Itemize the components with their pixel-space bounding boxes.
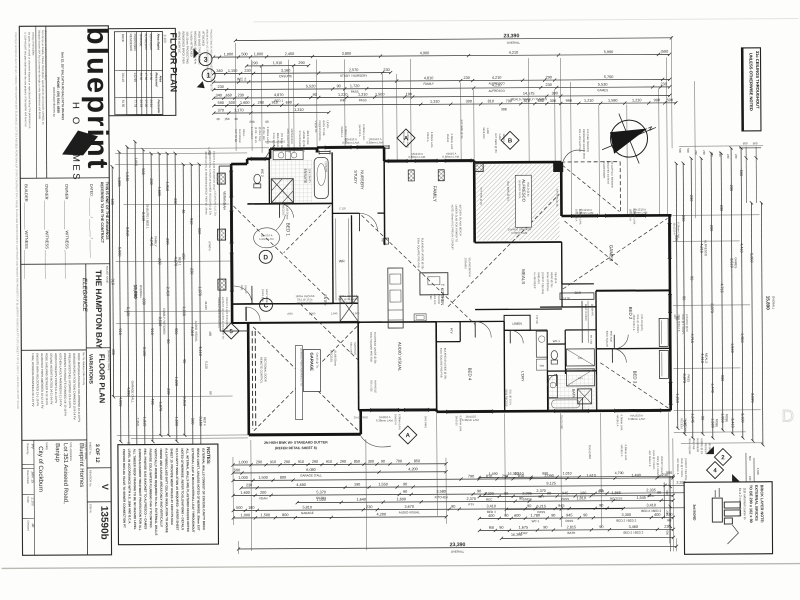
svg-text:1,510: 1,510 xyxy=(515,472,524,476)
svg-text:20x0610 STACKER: 20x0610 STACKER xyxy=(508,227,532,231)
wall wc1 xyxy=(547,330,565,374)
svg-text:3,100: 3,100 xyxy=(740,413,744,423)
svg-text:ISLAND BENCH: ISLAND BENCH xyxy=(468,258,472,277)
svg-text:230: 230 xyxy=(710,152,714,157)
bottom dim line 7 xyxy=(232,503,703,515)
left dim line 2 xyxy=(125,145,135,468)
svg-text:6.36mm LAM.: 6.36mm LAM. xyxy=(462,418,480,422)
svg-text:230: 230 xyxy=(149,178,153,184)
svg-text:4,715: 4,715 xyxy=(720,283,724,293)
left dim line 1 xyxy=(117,150,123,443)
room label KITCHEN xyxy=(440,288,445,306)
svg-text:2,350: 2,350 xyxy=(136,418,140,426)
svg-text:90: 90 xyxy=(182,359,186,363)
left dim line 0 xyxy=(110,165,115,398)
built-in desk xyxy=(582,301,594,343)
svg-text:370: 370 xyxy=(218,108,224,112)
svg-text:BATH TO BE: BATH TO BE xyxy=(322,120,326,135)
svg-text:EXTERNAL WALLS CONSIST OF 230/: EXTERNAL WALLS CONSIST OF 230/110E CAVIT… xyxy=(201,448,206,531)
exterior wall family top xyxy=(384,147,474,162)
svg-text:EXT BWK @ 3tc: EXT BWK @ 3tc xyxy=(479,187,482,205)
svg-text:SILL @ 10.5c: SILL @ 10.5c xyxy=(509,389,513,405)
svg-text:Checked: Checked xyxy=(26,520,30,531)
svg-text:M'DL ELECTRIC: M'DL ELECTRIC xyxy=(286,129,290,149)
svg-text:ENSUITE: ENSUITE xyxy=(279,74,292,78)
room label BED 3 xyxy=(632,371,637,384)
wall audio visual right xyxy=(435,322,438,412)
svg-text:FH/ SD: FH/ SD xyxy=(535,315,539,324)
wall kitchen/meals south xyxy=(436,321,475,323)
svg-text:EUROPEAN BORER TREATMENT PROT: EUROPEAN BORER TREATMENT PROTECTION FOR … xyxy=(138,449,143,531)
svg-text:HA1610 A: HA1610 A xyxy=(620,445,624,457)
door arc study xyxy=(359,213,377,231)
svg-text:1,220: 1,220 xyxy=(174,377,178,387)
marker 4 diamond xyxy=(706,461,740,482)
wall bed2/bed3 divider xyxy=(596,347,670,349)
svg-text:WC 1: WC 1 xyxy=(553,339,560,343)
svg-text:(600: (600 xyxy=(287,312,293,316)
wall wr right xyxy=(350,215,353,303)
bottom dim line 1 xyxy=(231,459,447,467)
svg-text:RECESS: RECESS xyxy=(680,418,684,429)
svg-text:UBO: UBO xyxy=(441,294,445,300)
svg-text:RAIL @ 1700A'L: RAIL @ 1700A'L xyxy=(652,450,656,470)
svg-text:910: 910 xyxy=(270,460,276,464)
svg-text:3 OF 12: 3 OF 12 xyxy=(94,444,100,463)
svg-text:EXT BWK @ 35c: EXT BWK @ 35c xyxy=(494,133,498,154)
svg-text:2,095: 2,095 xyxy=(522,492,532,496)
svg-text:PB: PB xyxy=(441,284,445,287)
bottom dim line 3 xyxy=(231,473,674,482)
door arc bed1 xyxy=(234,286,252,304)
svg-text:PROJECTING 1k HIGH ATTACHED MO: PROJECTING 1k HIGH ATTACHED MOULDING @ 2… xyxy=(209,29,212,91)
svg-text:4,210: 4,210 xyxy=(492,76,502,80)
svg-text:90: 90 xyxy=(477,489,481,493)
svg-text:RESIDENCE: RESIDENCE xyxy=(129,34,133,52)
svg-text:BUILT-IN DESK: BUILT-IN DESK xyxy=(584,304,587,321)
exterior wall top-left ensuite block xyxy=(231,149,317,165)
room label WR xyxy=(339,259,345,263)
svg-text:4,210: 4,210 xyxy=(509,51,519,55)
sheet box divider xyxy=(87,467,111,469)
svg-text:90: 90 xyxy=(313,93,317,97)
svg-text:17.68: 17.68 xyxy=(144,73,148,81)
marker B top xyxy=(501,131,519,149)
right top corner 500s xyxy=(739,141,761,203)
svg-text:(CELRO @2N): (CELRO @2N) xyxy=(640,315,643,331)
svg-text:1,000: 1,000 xyxy=(309,312,316,316)
svg-text:BWK OVER: BWK OVER xyxy=(306,131,310,145)
svg-text:STUDY: STUDY xyxy=(353,170,358,184)
svg-text:46,635: 46,635 xyxy=(204,301,208,310)
area table xyxy=(114,31,163,114)
bottom right dim bath xyxy=(478,525,675,536)
window bed3 bottom xyxy=(615,408,661,412)
svg-text:PASS: PASS xyxy=(686,374,690,382)
top dim line 8 xyxy=(212,98,677,107)
right dim line i xyxy=(674,162,680,430)
svg-text:U/SIDE @ 2N: U/SIDE @ 2N xyxy=(700,438,704,454)
bottom extension lines xyxy=(233,410,677,554)
svg-text:BATH: BATH xyxy=(568,531,576,535)
svg-text:Rev No Variation: Rev No Variation Date Drn By xyxy=(82,352,85,386)
svg-text:90: 90 xyxy=(701,416,705,420)
svg-text:RECESS: RECESS xyxy=(704,443,708,454)
svg-text:NURSERY: NURSERY xyxy=(360,170,365,190)
svg-text:HOUSE AND GARAGE AREAS ONLY AN: HOUSE AND GARAGE AREAS ONLY AND VERTICAL… xyxy=(159,448,163,527)
svg-text:SHADED BWK: SHADED BWK xyxy=(602,161,606,179)
svg-text:MANHOLE: MANHOLE xyxy=(353,342,357,355)
svg-text:90: 90 xyxy=(499,526,503,530)
window bath bottom xyxy=(555,409,589,413)
exterior wall alfresco left xyxy=(473,161,476,243)
svg-text:16x610: 16x610 xyxy=(446,134,450,143)
window audio visual bottom xyxy=(371,408,399,412)
svg-text:620w SQUARE PRE-FAB: 620w SQUARE PRE-FAB xyxy=(369,332,373,362)
svg-text:Lot 351 Aniseed Road,: Lot 351 Aniseed Road, xyxy=(62,443,68,504)
room label WC1 xyxy=(553,339,560,343)
svg-text:1,310: 1,310 xyxy=(358,93,368,97)
svg-text:230: 230 xyxy=(726,154,730,159)
bottom dim line 6 xyxy=(296,496,675,508)
svg-text:6.38mm LAM.: 6.38mm LAM. xyxy=(624,445,628,461)
svg-text:850: 850 xyxy=(354,460,360,464)
svg-text:3,510: 3,510 xyxy=(730,258,734,268)
bottom right dim wc1 xyxy=(478,513,675,524)
svg-text:3,410: 3,410 xyxy=(646,503,656,507)
variations divider xyxy=(86,264,88,555)
small box 640 xyxy=(381,238,389,244)
kitchen island bench2 xyxy=(420,273,448,295)
svg-text:(500: (500 xyxy=(661,50,669,54)
svg-text:910: 910 xyxy=(118,329,122,335)
svg-text:1,310: 1,310 xyxy=(430,100,440,104)
svg-text:4Rh/36 ACRYLIC: 4Rh/36 ACRYLIC xyxy=(177,31,181,53)
window bed4 bottom xyxy=(447,409,493,413)
svg-text:HIGH...: HIGH... xyxy=(242,129,246,138)
svg-text:790: 790 xyxy=(468,474,474,478)
verandah pier 2 xyxy=(218,229,226,240)
family pier hatch 2 xyxy=(438,170,444,181)
svg-text:230: 230 xyxy=(218,85,224,89)
svg-text:City of Cockburn: City of Cockburn xyxy=(37,446,44,492)
right small top col xyxy=(678,148,738,159)
svg-text:500: 500 xyxy=(686,148,690,153)
svg-text:Yd610 A: Yd610 A xyxy=(426,132,430,142)
svg-text:FAMILY: FAMILY xyxy=(432,186,437,202)
top dim line 9 xyxy=(212,107,507,115)
svg-text:SEA @ 4t: SEA @ 4t xyxy=(554,272,558,284)
svg-text:PTY: PTY xyxy=(449,328,453,335)
svg-text:5,700: 5,700 xyxy=(604,75,614,79)
svg-text:300w SQUAR: 300w SQUAR xyxy=(688,438,692,454)
notes box xyxy=(118,444,219,545)
svg-text:590: 590 xyxy=(218,101,224,105)
svg-text:OVERALL: OVERALL xyxy=(139,285,143,299)
svg-text:25x1510/BD: 25x1510/BD xyxy=(354,415,368,419)
svg-text:RAIL @ 1700AFL: RAIL @ 1700AFL xyxy=(681,314,685,335)
wall audio visual left xyxy=(357,322,360,410)
left dim line 4 xyxy=(149,152,159,443)
svg-text:LEVEL: LEVEL xyxy=(326,120,330,129)
svg-text:40: 40 xyxy=(216,117,220,121)
svg-text:GA615 @ 7fc: GA615 @ 7fc xyxy=(315,352,319,368)
scan shadow line bottom xyxy=(2,564,800,569)
svg-text:TO BE 290 x 162 x 90: TO BE 290 x 162 x 90 xyxy=(749,485,753,523)
svg-text:PASS: PASS xyxy=(565,519,573,523)
svg-text:RENDERED BRICK PIER: RENDERED BRICK PIER xyxy=(181,31,185,63)
svg-text:200: 200 xyxy=(260,491,266,495)
svg-text:RECESS: RECESS xyxy=(281,205,285,216)
ceilings note box xyxy=(741,48,761,131)
ensuite bath tub xyxy=(314,157,328,198)
svg-text:3,010: 3,010 xyxy=(125,227,129,237)
room label BED 1 xyxy=(286,223,291,237)
svg-text:150: 150 xyxy=(182,253,186,259)
svg-text:945: 945 xyxy=(566,513,572,517)
svg-text:THE HAMPTON BAY: THE HAMPTON BAY xyxy=(94,270,103,349)
svg-text:www.blueprinthomes.au: www.blueprinthomes.au xyxy=(52,87,56,117)
svg-text:VERANDAH: VERANDAH xyxy=(149,34,153,51)
svg-text:R 4.0 FIBREGLASS BATT CEILING: R 4.0 FIBREGLASS BATT CEILING INSULATION… xyxy=(164,448,169,532)
svg-text:1,500: 1,500 xyxy=(261,513,271,517)
right dim line b xyxy=(739,146,745,439)
svg-text:JR: JR xyxy=(31,523,35,528)
wall games bottom bed2 top xyxy=(596,289,670,291)
svg-text:S'PATH: S'PATH xyxy=(208,241,212,250)
svg-text:630w SQUARE PRE-FAB: 630w SQUARE PRE-FAB xyxy=(417,238,421,268)
wall wc robe top xyxy=(565,329,596,331)
svg-text:MOULDING @ 23s & KHs: MOULDING @ 23s & KHs xyxy=(193,31,197,64)
svg-text:EXT BWK @ 3tc: EXT BWK @ 3tc xyxy=(460,120,464,140)
svg-text:23,390: 23,390 xyxy=(503,33,519,39)
svg-text:555 x 555: 555 x 555 xyxy=(349,342,353,354)
manhole note xyxy=(349,342,357,355)
svg-text:90: 90 xyxy=(551,513,555,517)
svg-text:HEAD @ 25c: HEAD @ 25c xyxy=(297,301,313,305)
svg-text:VERANDAH: VERANDAH xyxy=(222,191,226,210)
svg-text:(SOFFIT CEILING): (SOFFIT CEILING) xyxy=(684,458,688,480)
svg-text:1,000: 1,000 xyxy=(238,460,248,464)
left dim line 5 xyxy=(157,152,167,437)
svg-text:R'HOOD: R'HOOD xyxy=(437,294,441,304)
exterior wall study top xyxy=(317,147,384,152)
svg-text:9,125: 9,125 xyxy=(546,481,556,485)
wc1 toilet xyxy=(551,351,557,364)
svg-text:1,640: 1,640 xyxy=(356,498,366,502)
svg-text:Banjup: Banjup xyxy=(54,443,60,462)
svg-text:4,790: 4,790 xyxy=(615,471,624,475)
svg-text:DRAWING NAME: DRAWING NAME xyxy=(107,350,111,371)
svg-text:CEDARLINE CLG 25c: CEDARLINE CLG 25c xyxy=(213,191,216,217)
svg-text:HOUSE NAME: HOUSE NAME xyxy=(105,266,109,284)
svg-text:4,200: 4,200 xyxy=(408,467,418,471)
kitchen sink xyxy=(414,314,426,321)
wall bath top xyxy=(547,370,596,372)
svg-text:230: 230 xyxy=(238,93,244,97)
svg-text:BRICK LAYER NOTE:: BRICK LAYER NOTE: xyxy=(760,485,764,523)
svg-text:4,900: 4,900 xyxy=(420,51,430,55)
svg-text:500: 500 xyxy=(665,530,669,535)
alfresco eave dashed xyxy=(561,162,620,214)
svg-text:13590b: 13590b xyxy=(98,506,109,540)
svg-text:C: C xyxy=(264,302,269,309)
svg-text:HOLD @ 4c: HOLD @ 4c xyxy=(526,182,530,197)
svg-text:5,120: 5,120 xyxy=(204,361,208,369)
marker A bottom xyxy=(399,426,417,444)
svg-text:77.78: 77.78 xyxy=(133,100,137,108)
wall ensuite/study divider xyxy=(331,152,333,215)
svg-text:BRICK CONST., UNLESS NOTED OTH: BRICK CONST., UNLESS NOTED OTHERWISE. 90… xyxy=(196,448,201,531)
svg-text:WC 2: WC 2 xyxy=(260,169,264,177)
svg-text:2G/910 A: 2G/910 A xyxy=(340,126,344,137)
svg-text:PRE-FAB: PRE-FAB xyxy=(692,438,696,449)
svg-text:PASS: PASS xyxy=(359,98,367,102)
svg-text:BULKHEAD U/SIDE @ 28c: BULKHEAD U/SIDE @ 28c xyxy=(443,348,447,380)
svg-text:1,000: 1,000 xyxy=(224,52,234,56)
svg-text:BED 3: BED 3 xyxy=(632,371,637,384)
ensuite vanity xyxy=(273,151,303,160)
svg-text:1,910: 1,910 xyxy=(273,61,283,65)
top dim line 2 xyxy=(212,50,671,59)
svg-text:500: 500 xyxy=(678,148,682,153)
svg-text:90: 90 xyxy=(451,505,455,509)
right closure dims xyxy=(664,476,672,551)
svg-text:2,335: 2,335 xyxy=(646,488,656,492)
garage door dashed xyxy=(252,331,256,429)
svg-text:3,590: 3,590 xyxy=(750,393,754,403)
top dim line 3 xyxy=(245,61,310,68)
svg-text:FLOOR PLAN: FLOOR PLAN xyxy=(168,32,178,92)
svg-text:1:100: 1:100 xyxy=(163,34,167,43)
svg-text:SITE ADDRESS: SITE ADDRESS xyxy=(69,442,73,461)
svg-text:400: 400 xyxy=(654,513,660,517)
svg-text:GAMES: GAMES xyxy=(597,88,608,92)
svg-text:230: 230 xyxy=(694,150,698,155)
svg-text:RAIL @ 1700A'L: RAIL @ 1700A'L xyxy=(680,458,684,478)
svg-text:242.99: 242.99 xyxy=(133,73,137,83)
roof dashed games xyxy=(563,218,669,409)
room label ENTRY xyxy=(323,294,327,306)
svg-text:1,070: 1,070 xyxy=(198,286,202,296)
svg-text:230: 230 xyxy=(546,83,552,87)
svg-text:4: 4 xyxy=(713,468,717,474)
svg-text:1,865: 1,865 xyxy=(611,491,621,495)
svg-text:1,600: 1,600 xyxy=(396,497,406,501)
svg-text:GAMES: GAMES xyxy=(734,258,738,269)
bath vanity xyxy=(548,376,557,398)
revision divider xyxy=(87,501,111,503)
svg-text:2,570: 2,570 xyxy=(349,68,359,72)
svg-text:3,800: 3,800 xyxy=(342,52,352,56)
svg-text:2,450: 2,450 xyxy=(285,52,295,56)
wall ensuite bottom xyxy=(247,202,332,205)
alfresco diagonal hatch xyxy=(476,164,559,241)
svg-text:555 x 555: 555 x 555 xyxy=(369,380,373,392)
svg-text:230: 230 xyxy=(689,195,693,201)
svg-text:3,160: 3,160 xyxy=(199,416,203,426)
svg-text:230: 230 xyxy=(383,68,389,72)
svg-text:HEAD @ 25c: HEAD @ 25c xyxy=(550,272,554,288)
svg-text:ALFRESCO: ALFRESCO xyxy=(704,240,708,257)
garage recess note xyxy=(329,350,337,366)
svg-text:RECESS: RECESS xyxy=(329,350,333,362)
svg-text:2,370: 2,370 xyxy=(536,489,546,493)
svg-text:HO: HO xyxy=(70,102,81,132)
bottom right dim linen xyxy=(478,489,675,502)
svg-text:GAS HWU: GAS HWU xyxy=(424,416,428,429)
svg-text:90: 90 xyxy=(209,391,213,395)
svg-text:600w OPENING: 600w OPENING xyxy=(546,272,550,291)
svg-text:500: 500 xyxy=(236,506,242,510)
svg-text:5,370: 5,370 xyxy=(316,490,326,494)
bottom dim line 4 xyxy=(240,481,703,490)
svg-text:290: 290 xyxy=(545,75,551,79)
north compass xyxy=(602,113,656,163)
svg-text:700: 700 xyxy=(396,459,402,463)
svg-text:4,310: 4,310 xyxy=(190,327,194,337)
svg-text:500: 500 xyxy=(748,456,752,461)
svg-text:KITCHEN: KITCHEN xyxy=(435,495,448,499)
svg-text:6.38mm LAM.: 6.38mm LAM. xyxy=(430,132,434,148)
svg-text:4300 SHELF &: 4300 SHELF & xyxy=(677,314,681,332)
svg-text:6.38mm LAM.: 6.38mm LAM. xyxy=(511,231,528,235)
svg-text:4,210: 4,210 xyxy=(492,83,502,87)
marker C xyxy=(259,298,272,311)
svg-text:3,373: 3,373 xyxy=(710,303,714,313)
svg-text:450: 450 xyxy=(208,331,212,336)
svg-text:REFERRED TO IN THE CONTRACT: REFERRED TO IN THE CONTRACT xyxy=(100,182,104,244)
left overall dim 15890 xyxy=(132,140,144,473)
svg-text:BAL BWK @ 31c: BAL BWK @ 31c xyxy=(506,181,510,201)
family pier hatch 1 xyxy=(408,170,414,181)
svg-text:Measured: Measured xyxy=(155,72,159,86)
svg-text:17.00: 17.00 xyxy=(144,100,148,108)
svg-text:1,010: 1,010 xyxy=(563,471,572,475)
svg-text:36.30: 36.30 xyxy=(139,73,143,81)
svg-text:90: 90 xyxy=(583,513,587,517)
svg-text:GAMES: GAMES xyxy=(609,245,614,262)
svg-text:R02L: R02L xyxy=(578,358,584,360)
svg-text:900d RECESS: 900d RECESS xyxy=(505,389,509,406)
window games top 2 xyxy=(605,213,645,217)
svg-text:FAMILY: FAMILY xyxy=(154,236,158,246)
svg-text:6.38mm LAM.: 6.38mm LAM. xyxy=(362,124,366,140)
svg-text:B: B xyxy=(508,139,513,145)
leader curve pier xyxy=(563,150,585,161)
svg-text:METER BOX: METER BOX xyxy=(290,129,294,145)
svg-text:4,810: 4,810 xyxy=(424,76,434,80)
brick layer note box xyxy=(684,482,772,555)
svg-text:6.38mm LAM.: 6.38mm LAM. xyxy=(450,134,454,150)
robe box 2 xyxy=(566,369,594,386)
svg-text:1,210: 1,210 xyxy=(675,394,679,404)
svg-text:STUDY / NURSERY: STUDY / NURSERY xyxy=(340,74,367,78)
svg-text:1M BRICK PIERS INTERNALLY TO: 1M BRICK PIERS INTERNALLY TO xyxy=(299,348,302,386)
svg-text:BUILDER ____________ WITNESS: BUILDER ____________ WITNESS ___________… xyxy=(24,184,30,279)
svg-text:1,300: 1,300 xyxy=(484,492,494,496)
kitchen bench strip xyxy=(388,268,403,328)
roof dashed entry diag xyxy=(300,303,358,360)
garage label box xyxy=(303,349,320,391)
svg-text:1,600: 1,600 xyxy=(240,491,250,495)
svg-text:1,590: 1,590 xyxy=(608,99,618,103)
svg-text:1,545: 1,545 xyxy=(690,413,694,423)
garage pier note box xyxy=(295,346,302,420)
svg-text:500: 500 xyxy=(743,141,748,145)
svg-text:Date Drawn: Date Drawn xyxy=(26,470,30,484)
svg-text:4Rh/36 ACRYLIC RENDERED BRICK: 4Rh/36 ACRYLIC RENDERED BRICK PIER Wi- 2… xyxy=(204,151,208,214)
